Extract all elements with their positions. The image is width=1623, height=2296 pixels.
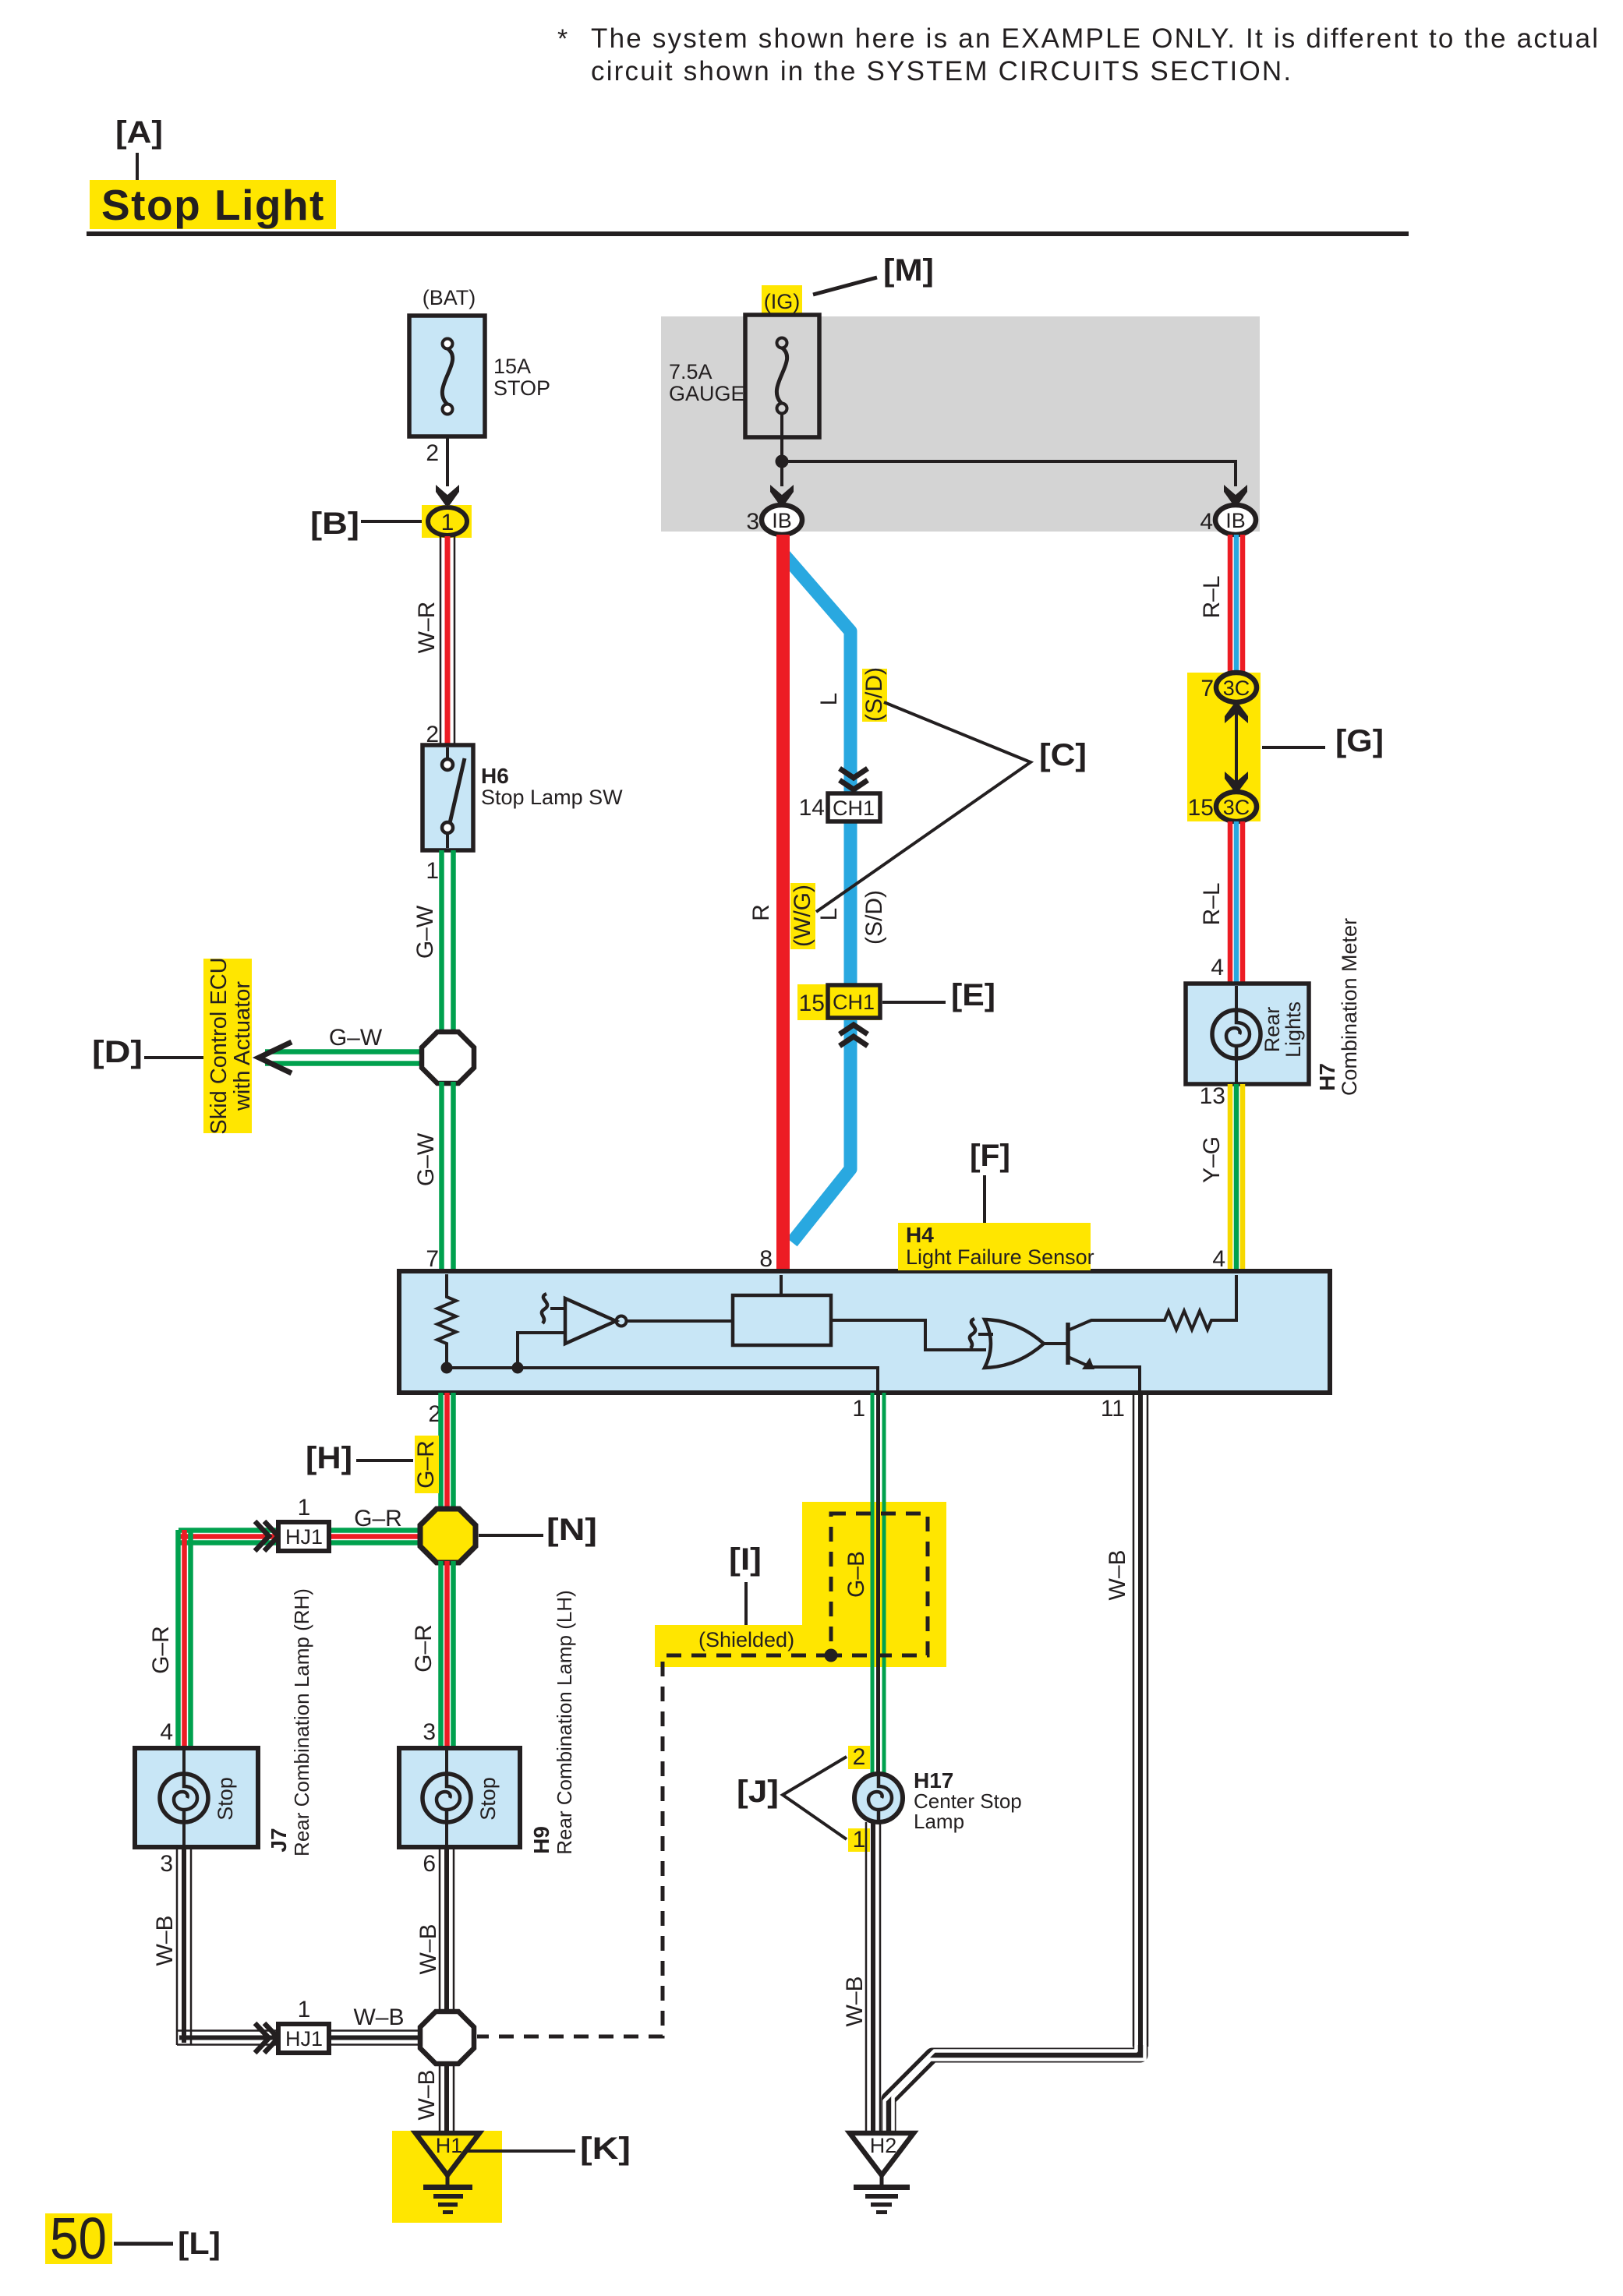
arrow open chevron to skid control — [259, 1042, 292, 1073]
svg-text:W–B: W–B — [353, 2005, 404, 2030]
label L — [114, 2227, 221, 2261]
svg-text:with Actuator: with Actuator — [230, 981, 255, 1111]
pin 1 H17 yellow tag — [848, 1827, 870, 1853]
connector CH1 pin 15 — [797, 984, 880, 1020]
svg-text:(BAT): (BAT) — [423, 286, 476, 309]
svg-text:Stop: Stop — [214, 1777, 237, 1821]
svg-text:7: 7 — [1200, 676, 1214, 701]
label F — [970, 1139, 1010, 1223]
svg-text:1: 1 — [426, 858, 439, 884]
note text top — [557, 23, 1600, 87]
wire pin8 stub into comparator — [780, 1275, 783, 1295]
svg-text:G–W: G–W — [329, 1025, 383, 1051]
label K — [465, 2132, 631, 2166]
lamp H9 Rear Combination Lamp LH — [399, 1748, 520, 1847]
svg-text:Rear Combination Lamp (LH): Rear Combination Lamp (LH) — [553, 1590, 576, 1855]
svg-text:[N]: [N] — [546, 1513, 597, 1547]
label H with G-R tag — [306, 1436, 439, 1493]
svg-text:W–B: W–B — [842, 1976, 868, 2026]
label N — [479, 1513, 597, 1547]
svg-text:G–B: G–B — [843, 1551, 869, 1598]
wire G-W octagon to H4 pin7 — [413, 1082, 454, 1271]
svg-text:7: 7 — [426, 1246, 439, 1272]
wire W-B J7 down — [152, 1847, 191, 2045]
octagon junction node GW — [422, 1032, 474, 1083]
svg-text:CH1: CH1 — [833, 991, 875, 1014]
meter H7 Combination Meter Rear Lights — [1186, 984, 1309, 1084]
wire NOT gate input — [518, 1333, 565, 1368]
svg-text:Stop: Stop — [476, 1777, 500, 1821]
octagon junction node N yellow — [420, 1509, 476, 1563]
svg-text:STOP: STOP — [493, 376, 550, 400]
svg-text:G–W: G–W — [412, 905, 438, 959]
svg-text:Stop Lamp SW: Stop Lamp SW — [481, 786, 623, 809]
internal bottom wire — [447, 1368, 878, 1390]
resistor internal vertical — [437, 1274, 456, 1366]
title underline — [87, 231, 1409, 236]
svg-text:R–L: R–L — [1199, 882, 1225, 925]
junction dot NOT input — [512, 1362, 524, 1374]
wire G-R octagon N to HJ1 left branch — [179, 1506, 425, 1543]
wire L blue branch — [784, 555, 850, 1242]
labels H7 Combination Meter — [1315, 918, 1361, 1096]
svg-text:(Shielded): (Shielded) — [698, 1628, 794, 1651]
wire W-B pin11 jog to H2 — [885, 2045, 1145, 2132]
svg-text:1: 1 — [853, 1827, 866, 1853]
svg-text:14: 14 — [799, 795, 825, 821]
svg-text:Stop Light: Stop Light — [101, 181, 325, 229]
label C with leaders — [816, 702, 1087, 912]
label B — [310, 507, 422, 541]
svg-text:[M]: [M] — [883, 253, 934, 288]
fuse 7.5A GAUGE — [669, 285, 819, 437]
svg-text:4: 4 — [160, 1719, 173, 1745]
arrow into node B — [436, 485, 459, 508]
label J with leaders — [737, 1757, 847, 1839]
svg-text:W–B: W–B — [414, 2069, 440, 2120]
chevrons into CH1-14 — [840, 768, 868, 789]
svg-text:[I]: [I] — [729, 1542, 762, 1577]
svg-text:R–L: R–L — [1199, 575, 1225, 618]
svg-text:Light Failure Sensor: Light Failure Sensor — [906, 1245, 1094, 1269]
svg-text:H1: H1 — [436, 2134, 463, 2157]
svg-text:W–B: W–B — [152, 1915, 178, 1966]
lamp H17 Center Stop Lamp — [854, 1768, 1022, 1833]
wire G-W branch left to skid control — [265, 1025, 429, 1064]
wire G-B H4 pin1 to H17 — [872, 1393, 884, 1775]
svg-text:50: 50 — [50, 2206, 107, 2271]
svg-text:L: L — [816, 693, 842, 706]
svg-text:15: 15 — [1188, 795, 1214, 821]
wire junction to IB4 — [782, 461, 1236, 486]
wire Y-G H7 to H4 pin4 — [1199, 1084, 1243, 1271]
svg-text:(W/G): (W/G) — [790, 885, 815, 947]
junction connector 3C yellow group — [1187, 673, 1261, 821]
arrow into IB3 — [770, 485, 794, 508]
junction dot — [776, 455, 789, 468]
svg-text:[K]: [K] — [580, 2132, 631, 2166]
svg-text:4: 4 — [1200, 509, 1213, 535]
NOT gate U1 — [542, 1294, 627, 1344]
comparator block rectangle — [733, 1295, 831, 1345]
svg-text:H4: H4 — [906, 1223, 934, 1247]
octagon junction node WB — [420, 2012, 474, 2064]
switch H6 Stop Lamp SW — [423, 745, 623, 850]
svg-text:11: 11 — [1101, 1396, 1125, 1422]
svg-text:H2: H2 — [870, 2134, 897, 2157]
shield junction dot — [825, 1649, 838, 1662]
connector IB pin 4 — [1200, 505, 1256, 535]
svg-text:circuit shown in the SYSTEM CI: circuit shown in the SYSTEM CIRCUITS SEC… — [591, 56, 1292, 87]
wire W-B J7 branch to HJ1 lower — [177, 2005, 425, 2045]
svg-text:CH1: CH1 — [833, 797, 875, 820]
junction dot resistor — [441, 1362, 453, 1374]
svg-text:[D]: [D] — [92, 1035, 143, 1069]
sensor H4 Light Failure Sensor box — [399, 1271, 1330, 1393]
svg-text:13: 13 — [1200, 1083, 1225, 1109]
svg-text:H6: H6 — [481, 764, 509, 788]
svg-text:15: 15 — [799, 991, 825, 1016]
svg-text:15A: 15A — [493, 355, 531, 378]
svg-text:7.5A: 7.5A — [669, 360, 712, 383]
svg-text:3: 3 — [423, 1719, 436, 1745]
svg-text:[A]: [A] — [115, 115, 163, 150]
chevron into HJ1 left — [255, 1521, 278, 1551]
arrow into IB4 — [1224, 485, 1247, 508]
svg-text:[J]: [J] — [737, 1775, 779, 1809]
svg-text:3C: 3C — [1223, 796, 1250, 819]
svg-text:GAUGE: GAUGE — [669, 382, 745, 405]
wire G-R H4 pin2 to octagon N — [441, 1393, 454, 1512]
wire fuse IG to junction dot — [780, 413, 783, 486]
wire R red IB3 to H4 pin8 — [776, 535, 790, 1273]
H4 yellow name label — [898, 1223, 1094, 1270]
svg-text:6: 6 — [423, 1851, 436, 1877]
svg-text:G–R: G–R — [148, 1626, 174, 1674]
svg-text:W–B: W–B — [415, 1923, 441, 1974]
ground H1 — [392, 2131, 502, 2223]
label I — [729, 1542, 762, 1625]
svg-text:[C]: [C] — [1039, 738, 1087, 772]
shielded yellow highlight region — [655, 1502, 946, 1667]
label M — [813, 253, 934, 295]
OR gate U2 — [970, 1319, 1044, 1368]
ground H2 — [850, 2133, 914, 2214]
wire G-R vertical down to J7 — [148, 1530, 191, 1748]
svg-text:2: 2 — [426, 440, 439, 466]
wire W-B octagon to H1 ground — [414, 2062, 454, 2132]
svg-text:Rear Combination Lamp (RH): Rear Combination Lamp (RH) — [290, 1588, 313, 1856]
svg-text:8: 8 — [759, 1246, 773, 1272]
wire G-W H6 to octagon node — [412, 850, 454, 1037]
wire W-B H9 down to octagon — [415, 1847, 454, 2015]
chevron into HJ1 lower — [255, 2023, 278, 2053]
wire R-L 3C to H7 — [1199, 821, 1243, 984]
svg-text:[L]: [L] — [178, 2227, 221, 2261]
svg-text:4: 4 — [1212, 1246, 1225, 1272]
svg-text:G–R: G–R — [413, 1440, 439, 1489]
wire NOT output to comparator — [626, 1319, 733, 1323]
svg-text:HJ1: HJ1 — [285, 1525, 323, 1549]
svg-text:H7: H7 — [1315, 1063, 1339, 1091]
shield dashed box — [831, 1514, 928, 1655]
labels H9 Rear Combination Lamp (LH) — [529, 1590, 576, 1855]
label S/D upper yellow — [861, 667, 887, 722]
label D — [92, 1035, 203, 1069]
connector CH1 pin 14 — [799, 793, 880, 821]
svg-text:[F]: [F] — [970, 1139, 1010, 1173]
svg-text:IB: IB — [772, 509, 792, 532]
wire W-R node B to H6 — [414, 536, 454, 745]
wire W-B H4 pin11 down — [1105, 1393, 1147, 2047]
labels J7 Rear Combination Lamp (RH) — [267, 1588, 313, 1856]
wire R-L IB4 to 3C — [1199, 535, 1243, 673]
svg-text:(S/D): (S/D) — [861, 667, 887, 722]
svg-text:G–R: G–R — [354, 1506, 402, 1531]
title Stop Light — [90, 180, 336, 229]
svg-text:[G]: [G] — [1335, 724, 1384, 758]
pin 2 H17 yellow tag — [848, 1744, 870, 1770]
svg-text:1: 1 — [298, 1997, 311, 2022]
resistor internal horizontal — [1129, 1275, 1236, 1330]
connector HJ1 pin 1 upper — [278, 1495, 329, 1551]
svg-text:HJ1: HJ1 — [285, 2027, 323, 2051]
connector HJ1 pin 1 lower — [278, 1997, 329, 2053]
svg-text:Y–G: Y–G — [1199, 1136, 1225, 1183]
shield dashed line to ground octagon — [477, 1655, 831, 2036]
fuse 15A STOP — [409, 286, 550, 486]
svg-text:IB: IB — [1225, 509, 1246, 532]
svg-text:3C: 3C — [1223, 676, 1250, 700]
svg-text:J7: J7 — [267, 1828, 291, 1852]
svg-text:Lights: Lights — [1282, 1001, 1305, 1058]
svg-text:The system shown here is an EX: The system shown here is an EXAMPLE ONLY… — [591, 23, 1600, 54]
svg-text:[E]: [E] — [951, 978, 995, 1012]
svg-text:1: 1 — [298, 1495, 311, 1521]
svg-text:4: 4 — [1211, 955, 1224, 980]
svg-text:W–B: W–B — [1105, 1549, 1130, 1600]
svg-text:R: R — [748, 904, 774, 921]
svg-text:G–W: G–W — [413, 1132, 439, 1186]
svg-text:W–R: W–R — [414, 602, 440, 654]
label G — [1262, 724, 1384, 758]
wire comparator to OR gate — [831, 1320, 986, 1350]
label A — [115, 115, 163, 180]
svg-text:[B]: [B] — [310, 507, 359, 541]
yellow label Skid Control ECU with Actuator — [203, 957, 255, 1134]
node B oval 1 — [422, 505, 472, 538]
svg-text:1: 1 — [441, 510, 454, 535]
svg-text:3: 3 — [746, 509, 759, 535]
lamp J7 Rear Combination Lamp RH — [135, 1748, 258, 1847]
wire W-B H17 to H2 ground — [842, 1822, 880, 2132]
chevrons into CH1-15 — [840, 1025, 868, 1046]
svg-text:Skid Control ECU: Skid Control ECU — [207, 957, 232, 1134]
label W/G yellow — [790, 883, 815, 949]
wire G-R octagon N to H9 — [411, 1561, 454, 1748]
label E — [882, 978, 995, 1012]
svg-text:2: 2 — [853, 1744, 866, 1770]
svg-text:[H]: [H] — [306, 1441, 352, 1475]
svg-text:Combination Meter: Combination Meter — [1338, 918, 1361, 1096]
svg-text:(S/D): (S/D) — [861, 890, 887, 945]
transistor Q1 — [1044, 1320, 1140, 1390]
svg-text:Rear: Rear — [1261, 1007, 1284, 1053]
svg-text:3: 3 — [160, 1851, 173, 1877]
junction block gray box — [661, 316, 1260, 532]
svg-text:Lamp: Lamp — [914, 1810, 964, 1833]
page number 50 — [45, 2206, 112, 2271]
svg-text:*: * — [557, 24, 568, 54]
svg-text:(IG): (IG) — [764, 290, 801, 313]
svg-text:G–R: G–R — [411, 1624, 437, 1673]
svg-text:1: 1 — [852, 1396, 865, 1422]
svg-text:H9: H9 — [529, 1826, 553, 1854]
connector IB pin 3 — [746, 505, 802, 535]
